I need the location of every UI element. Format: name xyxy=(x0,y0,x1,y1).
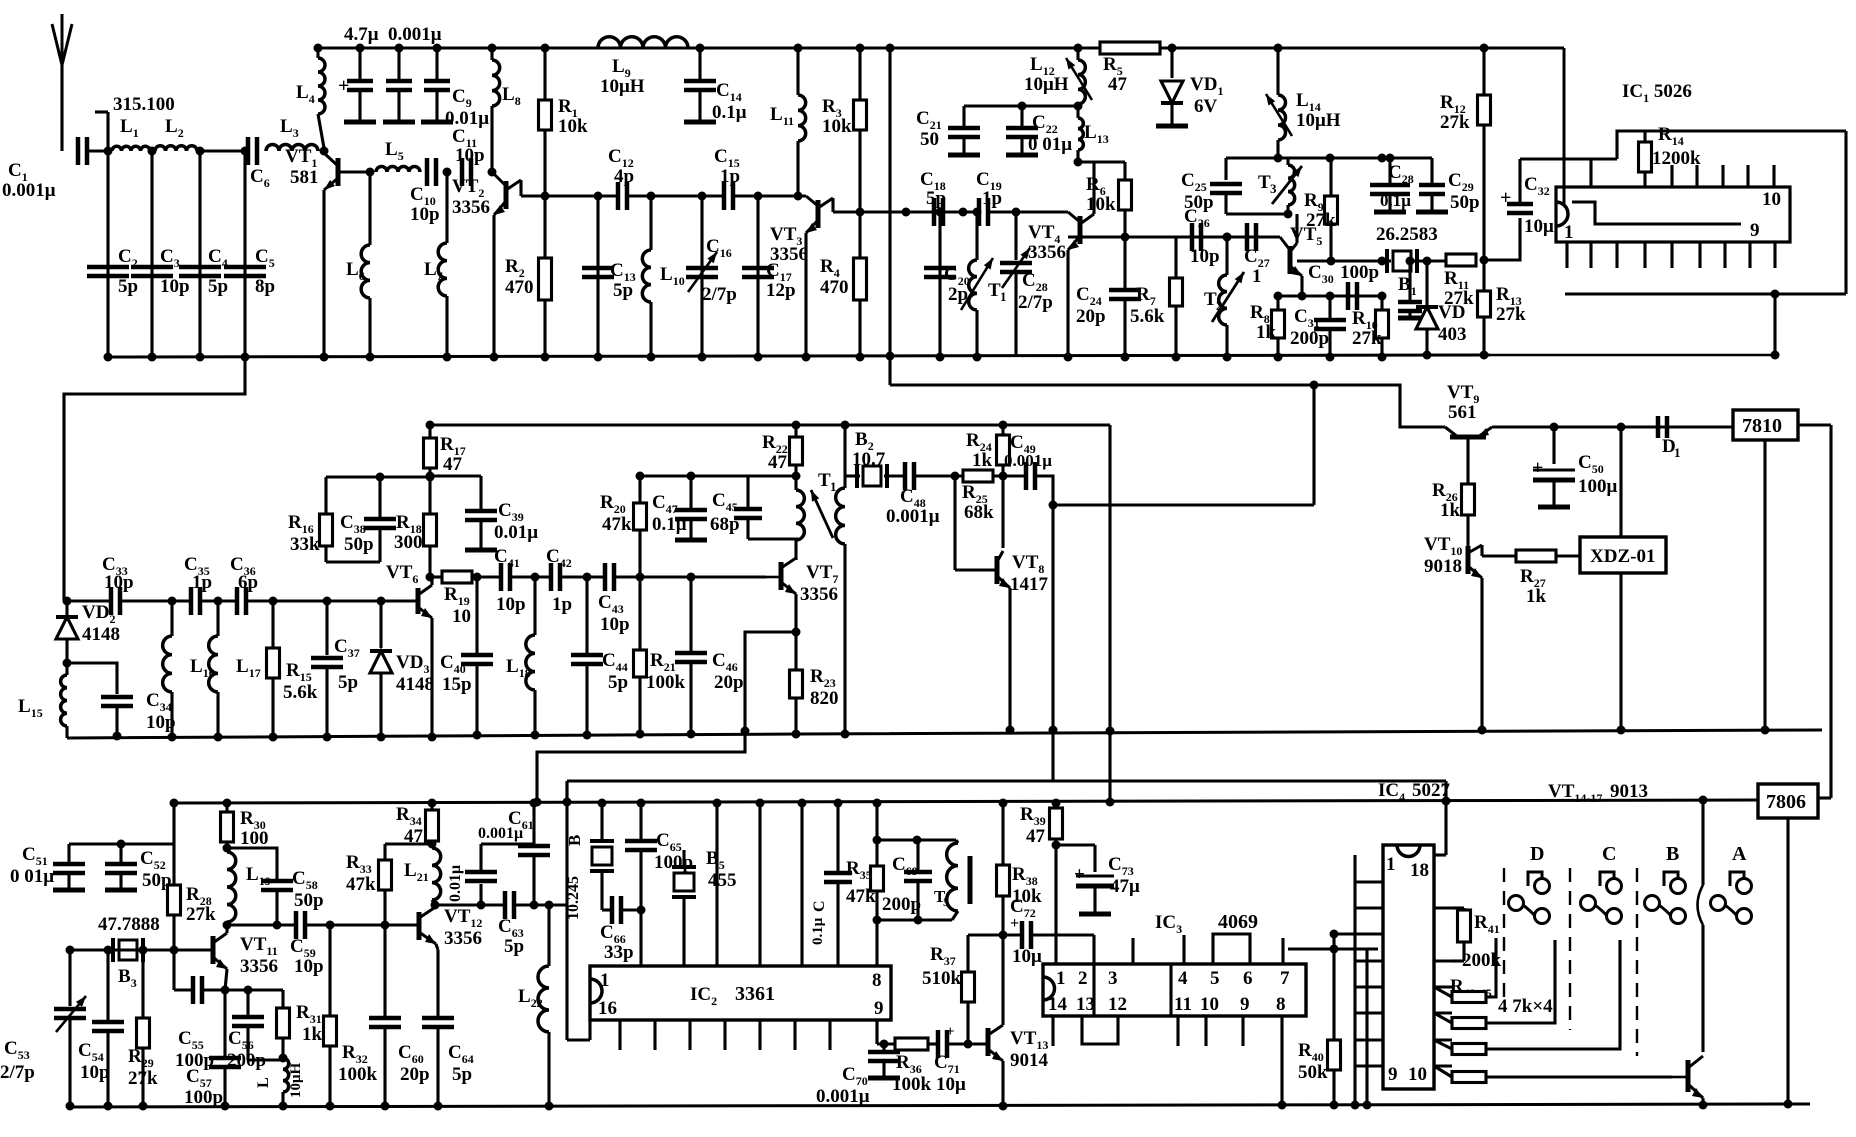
capacitor C67 xyxy=(810,799,852,967)
wire second return line xyxy=(886,44,895,386)
wire VT13 emitter xyxy=(999,1061,1008,1111)
node C11 out xyxy=(488,168,497,177)
svg-text:33p: 33p xyxy=(604,942,634,963)
transformer T1 primary xyxy=(796,476,804,560)
node L17 xyxy=(200,597,237,606)
capacitor C1 xyxy=(2,137,87,201)
IC U1 pin1 label xyxy=(1564,222,1574,243)
svg-text:1k: 1k xyxy=(1256,322,1277,343)
transistor VT8 xyxy=(955,476,1049,595)
resistor R32 xyxy=(324,925,378,1111)
inductor L11 xyxy=(770,44,806,201)
capacitor C14 xyxy=(684,44,747,124)
node C26-C27 xyxy=(1223,233,1232,242)
resistor R42 xyxy=(1434,938,1496,1003)
resistor R22 xyxy=(762,421,803,477)
wire VT7 emitter xyxy=(792,594,801,637)
IC U2 pin feeds xyxy=(756,799,807,967)
svg-text:510k: 510k xyxy=(922,968,962,989)
transformer T1 secondary xyxy=(836,421,850,739)
node L16 xyxy=(120,597,191,606)
wire VT11 emitter xyxy=(221,969,230,995)
wire 7806 gnd xyxy=(1784,818,1793,1109)
inductor L17 xyxy=(209,601,261,742)
wire IC2 pin9 out xyxy=(877,1020,895,1044)
capacitor C60 xyxy=(369,925,430,1111)
svg-text:10μ: 10μ xyxy=(936,1074,966,1095)
wire VT2 collector xyxy=(521,192,550,201)
svg-text:10μH: 10μH xyxy=(288,1062,304,1098)
inductor L22 xyxy=(518,905,554,1111)
svg-text:0 01μ: 0 01μ xyxy=(10,866,54,887)
wire C32 to IC1 xyxy=(1520,159,1591,187)
capacitor C61 xyxy=(478,799,550,910)
capacitor to gnd at B1 xyxy=(1398,257,1422,319)
node L2 out xyxy=(196,147,205,156)
wire mid band supply rail xyxy=(430,424,1110,427)
resistor R4 xyxy=(820,212,867,362)
svg-text:4 7k×4: 4 7k×4 xyxy=(1498,996,1553,1017)
IC U3 pin10 stub xyxy=(1204,1016,1207,1046)
resistor R18 xyxy=(394,468,437,577)
IC U3 bottom pin labels xyxy=(1048,994,1286,1015)
wire VT3 out xyxy=(860,208,933,217)
wire aux drop xyxy=(0,0,1,1)
resistor R15 xyxy=(267,601,318,742)
inductor L13 xyxy=(1074,104,1126,167)
capacitor C31 xyxy=(1290,296,1346,362)
IC U2 bottom pins xyxy=(620,1020,830,1050)
capacitor C38 xyxy=(326,477,396,562)
crystal B2 xyxy=(845,429,887,488)
svg-text:4148: 4148 xyxy=(82,624,120,645)
svg-text:561: 561 xyxy=(1448,402,1477,423)
svg-text:5p: 5p xyxy=(118,276,138,297)
wire bottom band feed line xyxy=(567,779,1446,782)
wire tank top xyxy=(877,836,956,845)
wire VT12 emitter xyxy=(436,944,438,1016)
svg-text:581: 581 xyxy=(290,167,319,188)
svg-text:18: 18 xyxy=(1410,860,1429,881)
svg-text:9: 9 xyxy=(874,998,884,1019)
svg-text:4148: 4148 xyxy=(396,674,434,695)
svg-text:9014: 9014 xyxy=(1010,1050,1049,1071)
svg-text:5p: 5p xyxy=(208,276,228,297)
inductor L9 xyxy=(598,37,688,97)
resistor R14 xyxy=(1639,124,1702,187)
transistor VT12 xyxy=(416,901,482,950)
svg-text:1k: 1k xyxy=(972,450,993,471)
IC U3 4069 box xyxy=(1043,964,1306,1016)
wire tank bottom xyxy=(877,916,952,925)
wire L2 to C6 xyxy=(200,147,250,156)
svg-text:100μ: 100μ xyxy=(1578,476,1618,497)
svg-text:0.001μ: 0.001μ xyxy=(478,825,523,842)
resistor R43 xyxy=(1434,940,1555,1029)
wire VT11 collector out xyxy=(227,921,296,930)
node C15 out xyxy=(733,192,806,201)
resistor R36 xyxy=(892,1038,932,1095)
regulator 7810 xyxy=(1733,410,1798,440)
svg-text:10p: 10p xyxy=(160,276,190,297)
IC U3 pin3 stub xyxy=(1131,938,1134,964)
svg-text:4.7μ: 4.7μ xyxy=(344,24,379,45)
svg-text:455: 455 xyxy=(708,870,737,891)
wire VT9 out xyxy=(1492,423,1733,432)
capacitor C65 xyxy=(625,799,693,911)
svg-text:5.6k: 5.6k xyxy=(1130,306,1165,327)
resistor R20 xyxy=(600,472,647,578)
wire bottom band feed line left drop xyxy=(563,781,572,807)
svg-text:47: 47 xyxy=(443,454,463,475)
svg-text:8: 8 xyxy=(1276,994,1286,1015)
IC U3 divider xyxy=(1094,964,1171,1016)
svg-text:0 01μ: 0 01μ xyxy=(1028,134,1072,155)
capacitor C15 xyxy=(714,146,740,210)
wire return line to VT9 xyxy=(890,385,1445,427)
node C19 out xyxy=(973,208,1069,217)
svg-text:7806: 7806 xyxy=(1766,791,1806,813)
resistor R7 xyxy=(1130,237,1183,362)
ceramic filter B5 xyxy=(672,848,737,966)
wire C29 top xyxy=(1410,156,1432,159)
svg-text:0.1μ: 0.1μ xyxy=(810,917,826,945)
IC U3 pin11 stub xyxy=(1176,1016,1179,1046)
resistor R21 xyxy=(634,577,686,739)
svg-text:20p: 20p xyxy=(714,672,744,693)
svg-text:47.7888: 47.7888 xyxy=(98,914,160,935)
svg-text:1k: 1k xyxy=(1526,586,1547,607)
svg-text:47: 47 xyxy=(768,452,788,473)
resistor R6 xyxy=(1086,162,1132,237)
wire XDZ bottom xyxy=(1617,573,1626,735)
IC U3 top pin labels xyxy=(1056,968,1290,989)
svg-text:5p: 5p xyxy=(613,280,633,301)
svg-text:0.001μ: 0.001μ xyxy=(816,1086,870,1107)
svg-text:5p: 5p xyxy=(452,1064,472,1085)
IC U3 pin13-12 loop xyxy=(1082,1016,1118,1044)
capacitor C40 xyxy=(440,577,493,740)
resistor R45 xyxy=(1434,1066,1672,1083)
wire VT1 base to L6 xyxy=(338,168,375,177)
IC U2 notch xyxy=(590,979,602,1003)
inductor L1 xyxy=(112,116,150,151)
svg-text:470: 470 xyxy=(505,277,534,298)
diode VD403 xyxy=(1416,257,1467,360)
IC U3 pin9 stub xyxy=(1241,1016,1244,1046)
IC U4 pin labels xyxy=(1386,854,1429,1085)
svg-text:12: 12 xyxy=(1108,994,1127,1015)
svg-text:0.01μ: 0.01μ xyxy=(494,522,538,543)
svg-text:10μH: 10μH xyxy=(1024,74,1069,95)
module XDZ-01 xyxy=(1580,537,1666,573)
capacitor 4.7u xyxy=(338,24,379,122)
wire C72 out xyxy=(1031,935,1094,964)
wire VT10 emitter xyxy=(1478,578,1487,735)
node VT8 collector xyxy=(993,472,1026,481)
svg-text:50p: 50p xyxy=(1450,192,1480,213)
svg-text:10p: 10p xyxy=(600,614,630,635)
resistor R3 xyxy=(822,44,867,217)
svg-text:2/7p: 2/7p xyxy=(1018,292,1053,313)
svg-text:3: 3 xyxy=(1270,181,1277,196)
resistor R1 xyxy=(539,44,589,197)
crystal B1 xyxy=(1376,224,1438,298)
svg-text:9: 9 xyxy=(1750,220,1760,241)
IC U3 notch xyxy=(1043,977,1055,1000)
svg-text:6V: 6V xyxy=(1194,96,1218,117)
transistor VT13 xyxy=(988,1022,1049,1071)
resistor R39 xyxy=(1020,799,1063,850)
svg-text:0.001μ: 0.001μ xyxy=(388,24,442,45)
wire tank to IC3 pin1 xyxy=(0,0,1,1)
svg-text:47k: 47k xyxy=(346,874,376,895)
wire VT10 collector xyxy=(1482,545,1516,556)
wire top rail right drop xyxy=(1563,48,1566,206)
resistor R28 xyxy=(168,844,217,950)
IC U1 top pins xyxy=(1672,165,1774,187)
switch D xyxy=(1509,843,1550,924)
transformer T5 xyxy=(934,840,970,920)
svg-text:1p: 1p xyxy=(720,166,740,187)
capacitor C26 xyxy=(1184,206,1220,267)
capacitor C63 xyxy=(498,891,524,957)
wire IC4 vcc xyxy=(1434,781,1451,855)
transistor VT4 xyxy=(1028,162,1094,263)
capacitor C56 xyxy=(225,986,266,1072)
svg-text:10p: 10p xyxy=(455,145,485,166)
node L22 xyxy=(514,901,567,910)
wire tank out xyxy=(1054,845,1057,964)
inductor L19 xyxy=(223,844,271,930)
capacitor C72 xyxy=(1003,896,1042,967)
svg-text:10μ: 10μ xyxy=(1524,216,1554,237)
svg-text:27k: 27k xyxy=(1444,288,1474,309)
IC U3 pin7 stub xyxy=(1281,938,1284,964)
wire VT8 emitter xyxy=(1006,588,1015,735)
svg-text:8: 8 xyxy=(872,970,882,991)
resistor R24 xyxy=(966,421,1010,477)
svg-text:0.001μ: 0.001μ xyxy=(1004,451,1052,470)
svg-text:10: 10 xyxy=(452,606,471,627)
capacitor C22 xyxy=(1006,102,1072,156)
IC U4 5027 box xyxy=(1383,845,1434,1089)
svg-text:0.1μ: 0.1μ xyxy=(712,102,747,123)
node R15 xyxy=(246,597,418,606)
resistor R38 xyxy=(997,799,1043,936)
svg-text:33k: 33k xyxy=(290,534,320,555)
svg-text:27k: 27k xyxy=(1440,112,1470,133)
inductor L8 xyxy=(488,44,521,173)
inductor L16 xyxy=(163,601,215,742)
IC U2 left pins xyxy=(713,799,722,967)
svg-text:50p: 50p xyxy=(344,534,374,555)
antenna xyxy=(52,14,72,151)
resistor R44 xyxy=(1434,940,1620,1055)
diode VD2 xyxy=(56,601,120,668)
capacitor C20 xyxy=(924,208,970,362)
resistor R33 xyxy=(346,844,432,925)
svg-text:9: 9 xyxy=(1388,1064,1398,1085)
wire R14 feed line xyxy=(1591,131,1846,159)
capacitor C49 xyxy=(1004,432,1052,490)
svg-text:47k: 47k xyxy=(846,886,876,907)
IC U4 left pins xyxy=(1355,882,1383,1066)
inductor L14 xyxy=(1266,44,1341,159)
svg-text:3356: 3356 xyxy=(800,584,838,605)
node VT1 base xyxy=(320,147,329,156)
resistor R19 xyxy=(442,571,472,627)
svg-text:50p: 50p xyxy=(1184,192,1214,213)
resistor R5 xyxy=(1100,42,1160,95)
transformer T1 core arrow xyxy=(811,470,837,538)
svg-text:47: 47 xyxy=(1026,826,1046,847)
node VT13 collector xyxy=(999,931,1008,940)
wire 7810 gnd xyxy=(1761,440,1770,735)
capacitor C17 xyxy=(742,196,796,362)
resistor R9 xyxy=(1304,158,1338,261)
wire VT6 emitter xyxy=(428,618,437,742)
capacitor C2 xyxy=(87,246,138,297)
inductor L12 xyxy=(1024,44,1092,105)
capacitor C59 xyxy=(290,911,324,977)
svg-text:+: + xyxy=(946,1024,955,1040)
switch C xyxy=(1581,843,1622,924)
svg-text:3356: 3356 xyxy=(770,244,808,265)
capacitor C52 xyxy=(105,840,172,892)
wire 315.100 drop xyxy=(104,151,113,362)
svg-text:1: 1 xyxy=(1056,968,1066,989)
svg-text:5: 5 xyxy=(943,895,949,909)
svg-text:1k: 1k xyxy=(302,1024,323,1045)
label 4.7kx4 xyxy=(1498,996,1553,1017)
svg-text:68p: 68p xyxy=(710,514,740,535)
svg-text:0.1μ: 0.1μ xyxy=(1380,191,1411,210)
capacitor C37 xyxy=(311,597,360,742)
resistor R10 xyxy=(1352,292,1389,362)
capacitor C9 xyxy=(421,44,489,130)
wire bottom band top rail xyxy=(174,800,1758,803)
wire C21 C22 top xyxy=(964,102,1083,111)
capacitor C11 xyxy=(452,126,485,186)
resistor R11 xyxy=(1444,254,1476,309)
svg-text:+: + xyxy=(1532,457,1543,479)
capacitor C46 xyxy=(675,577,744,739)
wire B1 node xyxy=(1382,259,1391,262)
wire IC2 pin8 feed xyxy=(873,799,882,967)
capacitor C13 xyxy=(582,196,636,362)
svg-text:6p: 6p xyxy=(238,572,258,593)
switch A xyxy=(1711,843,1752,924)
svg-text:+: + xyxy=(1010,915,1019,932)
capacitor C34 xyxy=(101,690,176,741)
IC U2 3361 box xyxy=(590,966,891,1020)
svg-text:IC1 5026: IC1 5026 xyxy=(1622,81,1692,105)
capacitor C41 xyxy=(494,546,526,615)
svg-text:0.1μ: 0.1μ xyxy=(652,514,687,535)
transistor VT7 xyxy=(766,558,838,605)
svg-text:27k: 27k xyxy=(186,904,216,925)
svg-text:8p: 8p xyxy=(255,276,275,297)
node 315.100 tap xyxy=(95,94,175,151)
svg-text:100: 100 xyxy=(240,828,269,849)
svg-text:20p: 20p xyxy=(400,1064,430,1085)
svg-text:200p: 200p xyxy=(1290,328,1329,349)
trimmer T2 xyxy=(1204,233,1244,362)
wire pin9 drop xyxy=(1771,294,1780,360)
resistor R34 xyxy=(396,799,439,849)
svg-text:1p: 1p xyxy=(192,572,212,593)
wire bottom band ground rail xyxy=(70,1104,1810,1107)
svg-text:0.001μ: 0.001μ xyxy=(2,180,56,201)
resistor R30 xyxy=(221,799,269,850)
wire C55 branch xyxy=(174,950,193,990)
svg-text:50k: 50k xyxy=(1298,1062,1328,1083)
node C41 in xyxy=(472,573,501,582)
svg-text:820: 820 xyxy=(810,688,839,709)
svg-text:50p: 50p xyxy=(294,890,324,911)
trimmer capacitor C53 xyxy=(0,950,86,1111)
resistor R41 xyxy=(1452,908,1502,971)
capacitor C5 xyxy=(224,246,275,297)
resistor R27 xyxy=(1516,550,1556,607)
resistor R40 xyxy=(1298,949,1341,1110)
wire C66 to IC2 xyxy=(639,910,642,966)
transistor VT9 xyxy=(1445,382,1492,437)
svg-text:10k: 10k xyxy=(558,116,588,137)
wire osc top xyxy=(1226,154,1410,163)
svg-text:6: 6 xyxy=(1243,968,1253,989)
wire top supply rail xyxy=(318,47,1564,50)
capacitor C64 xyxy=(422,1018,474,1111)
wire VT3 emitter xyxy=(802,233,811,362)
wire C3 drop xyxy=(148,151,157,362)
svg-text:B: B xyxy=(1666,843,1679,865)
svg-text:3356: 3356 xyxy=(452,197,490,218)
svg-text:47μ: 47μ xyxy=(1110,876,1140,897)
svg-text:10μH: 10μH xyxy=(1296,110,1341,131)
inductor L18 xyxy=(506,577,540,740)
IC U4 label xyxy=(1378,780,1451,804)
svg-text:10k: 10k xyxy=(822,116,852,137)
capacitor C28 xyxy=(1370,154,1414,213)
wire C49 out xyxy=(1035,381,1319,735)
capacitor 0.001u bypass xyxy=(383,24,442,122)
svg-text:10k: 10k xyxy=(1086,194,1116,215)
wire top-band to mixer link xyxy=(64,357,245,601)
IC U1 label xyxy=(1622,81,1692,105)
svg-text:403: 403 xyxy=(1438,324,1467,345)
svg-text:50: 50 xyxy=(920,129,939,150)
svg-text:2: 2 xyxy=(1216,298,1223,313)
diode VD3 xyxy=(370,597,434,742)
regulator 7806 xyxy=(1758,784,1818,818)
capacitor C54 xyxy=(78,950,124,1111)
svg-text:1: 1 xyxy=(1252,266,1262,287)
wire C51 cluster top xyxy=(69,799,179,845)
svg-text:26.2583: 26.2583 xyxy=(1376,224,1438,245)
svg-text:100k: 100k xyxy=(646,672,686,693)
svg-text:C: C xyxy=(811,900,828,912)
transistor VT5 xyxy=(1256,214,1322,276)
capacitor C66 xyxy=(600,896,634,963)
crystal B4 xyxy=(565,799,614,921)
svg-text:47k: 47k xyxy=(602,514,632,535)
wire aux to bottom xyxy=(1051,730,1054,781)
node C59 out xyxy=(305,921,416,930)
svg-text:3356: 3356 xyxy=(444,928,482,949)
capacitor C6 xyxy=(248,137,270,190)
